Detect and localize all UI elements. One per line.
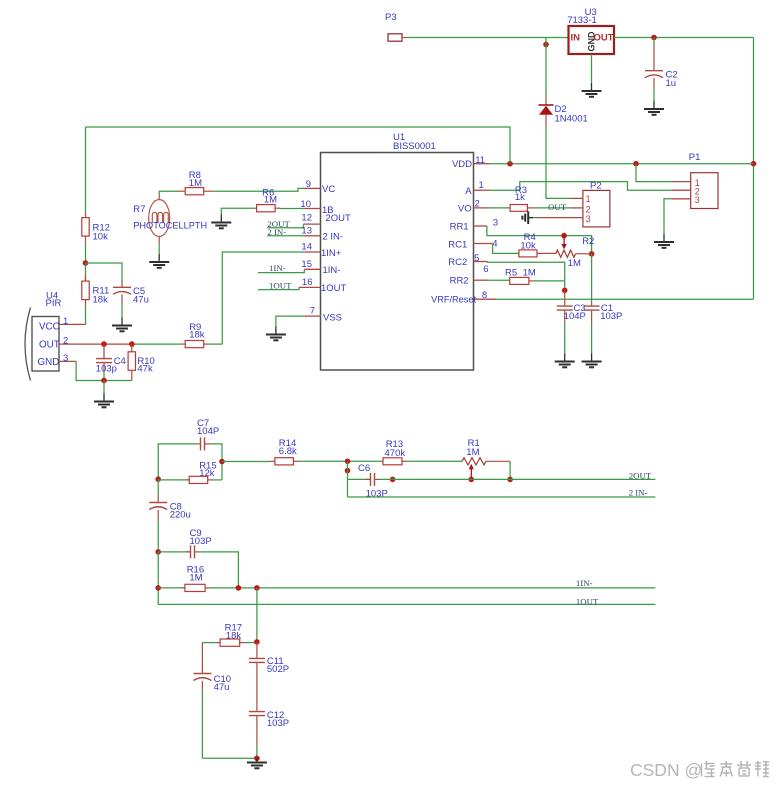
svg-text:12: 12 [301,213,312,224]
ground at P2 pin3 (rotated) [522,211,533,224]
wire pin16 net [258,287,299,289]
svg-text:P1: P1 [689,152,701,163]
svg-text:GND: GND [38,357,60,368]
resistor R9 18k [181,322,208,348]
resistor R4 10k [519,232,556,257]
wire pin15 net [258,269,304,272]
svg-text:2: 2 [63,336,68,347]
wire A to P1 pin2 [490,182,673,191]
svg-text:14: 14 [301,242,312,253]
resistor R13 470k [383,439,407,465]
node R17 right junction [254,639,260,645]
connector P2 [583,181,610,227]
node feedback left mid [345,468,351,474]
svg-text:103P: 103P [366,489,388,500]
pin 11 VDD [452,155,485,170]
wire pin13 net [267,235,304,237]
svg-text:1OUT: 1OUT [321,283,347,294]
node R15 left junction [155,476,161,482]
svg-text:P3: P3 [385,12,397,23]
svg-text:3: 3 [493,218,498,229]
svg-text:7133-1: 7133-1 [567,15,597,26]
svg-text:103P: 103P [190,536,212,547]
svg-text:470k: 470k [385,448,406,459]
svg-text:1: 1 [479,180,484,191]
svg-text:5: 5 [474,253,479,264]
ground under C4 [94,394,114,408]
svg-text:PIR: PIR [46,298,62,309]
pin 14 1IN+ [301,242,341,259]
PIR sensor U4 [25,291,61,381]
wire GND pin to bottom rail [76,361,101,380]
pin 16 1OUT [299,277,347,294]
capacitor C9 103P [158,528,211,558]
svg-text:A: A [465,186,472,197]
ground at bottom [247,758,267,768]
svg-text:1IN-: 1IN- [323,265,341,276]
wire to PIR ground [103,381,105,394]
ground under C2 [644,101,664,115]
capacitor C12 103P [249,710,289,758]
wire RR1 rail [487,226,592,254]
resistor R8 1M [178,170,214,195]
pin stub P1-1 [672,181,691,183]
svg-text:2 IN-: 2 IN- [267,227,286,237]
node C2 junction [651,35,657,41]
svg-text:18k: 18k [189,329,205,340]
svg-text:1M: 1M [568,258,581,269]
svg-text:BISS0001: BISS0001 [393,141,436,152]
resistor R6 1M [254,187,280,212]
node junction on D2 branch [543,42,549,48]
wire pin12 net [267,224,303,228]
svg-text:1M: 1M [466,447,479,458]
node R12/R11/C5 junction [83,260,89,266]
svg-text:10: 10 [300,199,311,210]
wire D2 to P2 pin1 [546,127,571,198]
wire pin14 to R9 [222,252,304,344]
pin stub P1-2 [672,189,691,191]
connector P1 [689,152,718,209]
capacitor C1 103P [584,254,623,354]
svg-text:IN: IN [571,33,581,44]
svg-text:47k: 47k [137,364,153,375]
ground under C1 [582,354,602,368]
svg-text:PHOTOCELLPTH: PHOTOCELLPTH [133,221,207,231]
op-amp IC U1 BISS0001 [321,132,474,370]
wire 2OUT rail [379,478,655,480]
svg-text:R5: R5 [505,267,517,278]
svg-text:1IN+: 1IN+ [321,248,342,259]
pin 7 VSS [304,306,342,324]
svg-text:13: 13 [301,225,312,236]
wire OUT to R9 [135,343,181,345]
resistor R3 1k [510,185,535,211]
capacitor C5 47u [113,280,149,318]
svg-text:3: 3 [586,214,591,224]
wire R14 input [222,461,270,463]
ground at P1 pin3 [654,234,674,248]
svg-text:3: 3 [63,353,68,364]
wire R11 to PIR VCC [85,306,87,324]
node R1 right on rail [507,477,513,483]
wire R17 left to C10 [202,642,215,644]
watermark CSDN [630,760,769,780]
svg-text:15: 15 [301,259,312,270]
pin 8 VRF/Reset [431,290,496,305]
svg-text:2OUT: 2OUT [326,213,352,224]
svg-text:C6: C6 [358,463,370,474]
wire C5 branch [86,263,123,280]
wire R5 to C3 node [534,280,565,282]
potentiometer R2 1M [556,236,595,269]
svg-text:6: 6 [483,264,488,275]
svg-text:18k: 18k [93,295,109,306]
svg-text:VRF/Reset: VRF/Reset [431,295,476,305]
svg-text:R2: R2 [582,236,594,247]
svg-text:RR1: RR1 [450,222,469,233]
wire VRF/Reset rail [496,298,754,300]
capacitor C8 220u [149,479,191,552]
resistor R5 1M [505,267,536,284]
pin 5 RC2 [448,253,487,268]
node R10 top junction [129,341,135,347]
svg-text:1: 1 [586,194,591,204]
pin U4-1 VCC [59,316,86,327]
svg-text:VCC: VCC [39,321,60,332]
svg-text:1M: 1M [264,195,277,206]
diode D2 1N4001 [539,95,588,127]
svg-text:9: 9 [306,179,311,190]
svg-text:8: 8 [482,290,487,301]
ground under U3 [582,54,602,97]
resistor R15 12k [158,461,222,484]
capacitor C10 47u [193,643,231,759]
pin 2 VO [458,199,490,215]
resistor R17 18k [216,623,257,647]
svg-text:VDD: VDD [452,159,472,170]
resistor R14 6.8k [270,438,298,465]
capacitor C4 103p [96,344,126,380]
svg-text:OUT: OUT [548,202,567,212]
capacitor C11 502P [249,642,289,712]
wire R17 branch vertical [256,588,258,642]
ground under photocell [149,254,169,268]
wire R1 down to 2OUT rail [509,461,511,479]
wire R6 to pin10 [280,208,305,210]
svg-text:1OUT: 1OUT [269,280,292,290]
wire VDD to top-left rail [86,127,511,164]
wire VO to R3 [490,207,510,209]
svg-text:103P: 103P [267,718,289,729]
wire left vertical supply [85,127,87,212]
wire 2IN- rail [348,496,656,498]
wire PIR bottom rail [101,380,132,382]
node C9 branch [155,549,161,555]
capacitor C3 104P [557,290,586,353]
wire VDD rail [474,163,754,165]
wire feedback left vertical [347,461,349,497]
ground at VSS [266,327,286,341]
node C4 top junction [101,341,107,347]
svg-text:RR2: RR2 [450,276,469,287]
capacitor C7 104P [197,418,219,450]
svg-text:2OUT: 2OUT [629,470,652,480]
wire P3 to U3 IN [406,37,569,39]
svg-text:1k: 1k [515,192,525,203]
svg-text:10k: 10k [93,232,109,243]
pin 3 RR1 [450,218,499,233]
svg-text:6.8k: 6.8k [279,446,297,457]
svg-text:103P: 103P [600,311,622,322]
wire C9 to 1IN- rail [199,552,238,588]
wire U3 OUT to right edge [614,37,754,39]
svg-text:103p: 103p [96,364,117,375]
node VDD junction A [507,161,513,167]
pin stub P2-1 [571,197,583,199]
svg-text:1M: 1M [189,573,202,584]
svg-text:OUT: OUT [39,339,60,350]
node feedback left top [345,459,351,465]
svg-text:11: 11 [475,155,485,166]
node VDD right corner [751,161,757,167]
wire RC1 to R4 [493,244,519,254]
pin stub P2-2 [571,207,583,209]
wire 1IN- rail [210,587,656,589]
svg-text:RC2: RC2 [448,257,467,268]
svg-text:47u: 47u [214,682,230,693]
wire C7 left loop [158,444,198,479]
wire C10 bottom rail [202,757,257,759]
svg-text:2 IN-: 2 IN- [323,231,344,242]
wire R14 to R13 [298,460,383,462]
wire VDD to P1 pin1 [636,164,672,182]
svg-text:220u: 220u [170,510,191,521]
svg-text:47u: 47u [133,295,149,306]
node C6 right [390,477,396,483]
pin U4-2 OUT [59,336,135,347]
wire RR2 to R5 [488,279,510,281]
node C9 bottom junction [236,585,242,591]
svg-text:1IN-: 1IN- [269,263,286,273]
svg-text:104P: 104P [197,426,219,437]
wire 1OUT rail [158,603,655,605]
node R17 branch junction [254,585,260,591]
pin 12 2OUT [301,213,351,225]
wire RC2 down to C3 node [488,262,565,291]
pin 1 A [465,180,489,197]
connector P3 [385,12,406,41]
ground at R6 [211,215,231,229]
node VDD junction B [633,161,639,167]
svg-text:VC: VC [322,184,335,195]
pin 10 1B [300,199,333,216]
node R14 branch [219,459,225,465]
photocell R7 PHOTOCELLPTH [133,200,207,255]
wire P2 pin3 to ground [528,217,536,219]
svg-text:1IN-: 1IN- [576,578,593,588]
voltage regulator U3 7133-1 [567,7,614,54]
svg-text:VSS: VSS [323,312,342,323]
pin 13 2IN- [301,225,343,242]
svg-text:1: 1 [63,316,68,327]
pin 6 RR2 [450,264,489,287]
pin stub P1-3 [672,198,691,200]
svg-text:1u: 1u [666,78,677,89]
wire right edge vertical [753,38,755,300]
capacitor C6 103P [348,463,388,500]
svg-text:R7: R7 [133,204,145,215]
resistor R10 47k [128,344,155,380]
pin stub P2-3 [536,217,583,219]
svg-text:RC1: RC1 [448,239,467,250]
node R2 right junction [589,251,595,257]
svg-text:3: 3 [695,195,700,205]
wire R6 to ground [221,208,253,214]
wire R8 to photocell [159,191,178,200]
wire R8 to pin9 [214,188,305,191]
node C3 junction [562,288,568,294]
wire VSS to ground [276,316,304,326]
svg-text:OUT: OUT [594,33,614,44]
wire R13 to R1 [407,460,462,462]
wire left vertical to 1OUT [157,552,159,605]
resistor R11 18k [82,263,109,306]
node R1 wiper on rail [469,477,475,483]
ground under C3 [555,354,575,368]
wire R9 to pin14 riser [208,343,222,345]
ground under C5 [112,318,132,332]
resistor R12 10k [82,212,110,244]
pin 15 1IN- [301,259,340,276]
svg-text:502P: 502P [267,664,289,675]
svg-text:1OUT: 1OUT [576,596,599,606]
svg-text:1M: 1M [523,267,536,278]
svg-text:VO: VO [458,204,472,215]
wire P1 pin3 to ground [664,199,672,234]
pin U4-3 GND [59,353,76,364]
pin 4 RC1 [448,238,497,250]
svg-text:1N4001: 1N4001 [555,114,588,125]
wire R3 to P2 pin2 [536,207,572,209]
capacitor C2 1u [645,38,678,102]
svg-text:2 IN-: 2 IN- [629,488,648,498]
svg-text:7: 7 [310,306,315,317]
svg-text:2: 2 [475,199,480,210]
resistor R16 1M [158,565,209,592]
wire D2 branch vertical [545,38,547,96]
potentiometer R1 1M [462,438,510,479]
pin 9 VC [305,179,336,195]
svg-text:104P: 104P [564,311,586,322]
node R16 left junction [155,585,161,591]
wire C7 right loop [211,444,222,480]
svg-text:CSDN @: CSDN @ [630,760,702,780]
wire R12 to junction [85,243,87,263]
node wiper junction [561,233,567,239]
node PIR ground junction [101,378,107,384]
svg-text:16: 16 [302,277,313,288]
svg-text:GND: GND [587,31,597,52]
node bottom ground junction [254,756,260,762]
